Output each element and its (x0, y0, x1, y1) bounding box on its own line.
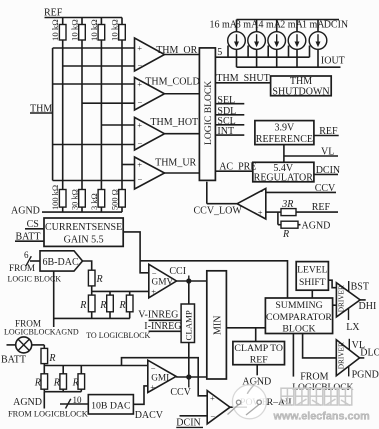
svg-text:VL: VL (321, 146, 334, 157)
pin SDL (215, 106, 244, 117)
pin INT (215, 126, 244, 137)
resistor R batt divider #3 (78, 366, 85, 392)
svg-text:GMV: GMV (152, 278, 174, 288)
resistor 3 kΩ divider bottom #3 (90, 190, 105, 213)
wire THM tap to comparator U2 + input (53, 83, 135, 85)
svg-text:R: R (34, 377, 41, 388)
op-amp comparator U1 (THM_OR) (135, 38, 165, 71)
value labels R R R (79, 300, 125, 311)
svg-text:10 kΩ: 10 kΩ (70, 19, 80, 41)
wire I-INREG input to clamp (144, 321, 181, 332)
wire THM tap to comparator U3 - input (53, 144, 135, 146)
wire GMV output CCI (169, 266, 206, 281)
svg-text:−: − (151, 363, 156, 373)
svg-text:+: + (137, 79, 142, 89)
wire MIN output to summing comparator (226, 327, 265, 329)
wire divider1 tap to comparator U1 - input (63, 65, 135, 67)
svg-text:MIN: MIN (212, 316, 223, 335)
resistor R batt divider #1 (41, 366, 48, 392)
op-amp comparator U6 (CCV_LOW) (237, 187, 266, 219)
wire batt tap jog to powerfail comparator + input (122, 358, 208, 396)
svg-text:THM_COLD: THM_COLD (145, 76, 199, 87)
wire 6-bit bus input from logic block (8, 250, 62, 283)
resistor 30 kΩ divider bottom #2 (71, 189, 86, 212)
wire level shift to high-side driver (328, 280, 336, 288)
value labels R R R batt divider (34, 377, 79, 388)
svg-text:10 kΩ: 10 kΩ (110, 19, 120, 41)
wire branch to clamp-to-ref (255, 328, 257, 342)
svg-text:REF: REF (312, 202, 331, 213)
svg-text:R: R (53, 377, 60, 388)
wire clamp to CCV junction (188, 343, 190, 378)
svg-text:LEVEL: LEVEL (297, 264, 328, 275)
svg-text:5: 5 (217, 47, 222, 58)
svg-text:www.elecfans.com: www.elecfans.com (273, 410, 370, 422)
pin DLO output (360, 347, 379, 358)
svg-text:6: 6 (24, 250, 29, 260)
resistor 10k #3 (10 kΩ) (89, 18, 105, 190)
svg-text:BLOCK: BLOCK (282, 323, 315, 334)
svg-text:AGND: AGND (13, 397, 42, 408)
svg-text:REFERENCE: REFERENCE (256, 134, 313, 145)
svg-text:R: R (96, 274, 103, 285)
wire THM_HOT output to logic block (165, 133, 200, 135)
svg-text:−: − (259, 187, 264, 197)
pin CS input (25, 219, 44, 230)
svg-text:FROM LOGICBLOCK: FROM LOGICBLOCK (8, 409, 88, 418)
pin SCL (215, 116, 244, 127)
wire REF output (314, 126, 339, 137)
svg-text:CCV_LOW: CCV_LOW (194, 205, 243, 216)
block SUMMING COMPARATOR BLOCK (265, 298, 332, 334)
op-amp comparator U2 (THM_COLD) (135, 78, 165, 111)
svg-text:CURRENTSENSE: CURRENTSENSE (45, 222, 122, 233)
wire current sense output CSI (123, 232, 149, 273)
pin DHI output (359, 300, 377, 312)
svg-text:R: R (282, 229, 289, 240)
svg-text:10 kΩ: 10 kΩ (89, 19, 99, 41)
current source 16 mA (210, 19, 246, 67)
svg-text:SHIFT: SHIFT (299, 277, 326, 288)
svg-text:16 mA: 16 mA (210, 19, 238, 30)
svg-text:LOGICBLOCKAGND: LOGICBLOCKAGND (4, 328, 79, 337)
wire IOUT output bus (237, 55, 345, 67)
svg-text:CLAMP TO: CLAMP TO (234, 343, 283, 354)
svg-text:+: + (137, 120, 142, 130)
wire CCV net to comparator - input (266, 183, 336, 194)
resistor R from BATT (41, 345, 56, 366)
block MIN (207, 271, 227, 379)
resistor R dac output (83, 261, 103, 291)
svg-text:DCIN: DCIN (316, 165, 340, 176)
decorative watermark (not labelled further) (228, 381, 370, 423)
svg-text:COMPARATOR: COMPARATOR (266, 312, 332, 323)
op-amp comparator U4 (THM_UR) (135, 157, 165, 189)
wire THM tap to comparator U1 + input (53, 47, 135, 49)
wire summing to logic block (292, 334, 353, 393)
svg-text:FROM: FROM (300, 371, 328, 382)
svg-text:SHUTDOWN: SHUTDOWN (272, 86, 329, 97)
svg-text:CCV: CCV (170, 387, 191, 398)
op-amp comparator U11 (power fail) (207, 391, 230, 424)
dac U10 (10B DAC) (88, 395, 133, 414)
wire DCIN input to regulator (314, 165, 340, 176)
svg-text:AGND: AGND (11, 206, 40, 217)
svg-text:DRIVER: DRIVER (337, 285, 346, 312)
wire THM vertical bus (52, 48, 54, 181)
wire reference to regulator link (283, 145, 285, 163)
svg-text:10 kΩ: 10 kΩ (50, 19, 60, 41)
pin DCIN comparator - input (176, 416, 207, 429)
resistor 10k #2 (10 kΩ) (70, 18, 86, 190)
svg-text:REF: REF (250, 354, 269, 365)
op-amp GMI (148, 360, 176, 392)
svg-text:DACV: DACV (135, 410, 164, 421)
resistor R dac divider #2 (107, 291, 114, 318)
svg-text:−: − (138, 139, 143, 149)
svg-text:LX: LX (346, 322, 360, 333)
wire 10-bit bus input (60, 395, 88, 408)
svg-text:I-INREG: I-INREG (144, 321, 181, 332)
wire CSI branch to summing comparator (140, 261, 287, 298)
svg-text:−: − (138, 175, 143, 185)
wire GMI output CCV to MIN (176, 376, 207, 378)
svg-text:LOGIC BLOCK: LOGIC BLOCK (203, 81, 214, 145)
svg-text:CLAMP: CLAMP (183, 310, 193, 340)
wire divider2 tap to comparator U2 - input (82, 102, 135, 104)
ground AGND of CCV divider (298, 221, 330, 232)
svg-text:500 Ω: 500 Ω (111, 189, 120, 210)
block CLAMP TO REF (233, 342, 285, 366)
wire V-INREG input to clamp (138, 310, 181, 321)
svg-text:AGND: AGND (302, 221, 331, 232)
svg-text:FROM: FROM (9, 263, 35, 273)
op-amp comparator U3 (THM_HOT) (135, 117, 165, 150)
wire THM tap to comparator U4 - input (53, 180, 135, 182)
resistor R dac divider #1 (88, 291, 95, 318)
wire divider3 tap to comparator U3 + input (101, 124, 134, 126)
block THM SHUTDOWN (271, 76, 332, 97)
resistor 500 Ω divider bottom #4 (111, 189, 126, 212)
svg-text:−: − (152, 268, 157, 278)
svg-text:10B DAC: 10B DAC (91, 400, 130, 411)
current source 1 mA (302, 19, 327, 67)
svg-text:GMI: GMI (151, 373, 169, 383)
svg-text:SUMMING: SUMMING (275, 300, 322, 311)
pin VL of low-side driver (349, 339, 365, 351)
wire summing output to driver (333, 304, 337, 306)
wire AC_PRE input (215, 162, 256, 173)
block CURRENTSENSE GAIN 5.5 (44, 218, 123, 246)
svg-text:REGULATOR: REGULATOR (254, 173, 314, 184)
svg-text:+: + (258, 207, 263, 217)
terminal BATT (circle-X) (1, 337, 44, 366)
wire THM_COLD output to logic block (165, 93, 200, 95)
svg-text:GAIN 5.5: GAIN 5.5 (64, 235, 104, 246)
node CCI junction (186, 278, 191, 283)
svg-text:BATT: BATT (1, 355, 26, 366)
svg-text:30 kΩ: 30 kΩ (71, 189, 80, 210)
svg-text:3 kΩ: 3 kΩ (90, 193, 99, 210)
wire divider4 tap to comparator U4 + input (122, 164, 135, 166)
wire dac divider rail to GMV + input (92, 290, 149, 292)
wire POWER FAIL output (230, 397, 268, 408)
pin PGND (349, 366, 379, 381)
svg-text:DHI: DHI (359, 301, 377, 312)
svg-text:3.9V: 3.9V (275, 123, 296, 134)
resistor 10k #4 (10 kΩ) (110, 18, 126, 190)
svg-text:−: − (138, 97, 143, 107)
svg-text:R: R (72, 377, 79, 388)
ground AGND batt divider (13, 392, 81, 409)
current source 2 mA (280, 19, 306, 67)
wire DACV output to GMI + input (133, 386, 163, 421)
svg-text:8 mA: 8 mA (236, 19, 259, 30)
pin BATT input (15, 232, 44, 243)
ground AGND below clamp-to-ref (242, 365, 271, 388)
driver U9 (DRIVER low-side) (336, 340, 359, 376)
resistor 3R (281, 199, 296, 215)
svg-text:PGND: PGND (352, 370, 379, 381)
pin BST (349, 281, 369, 293)
svg-text:BST: BST (351, 282, 369, 293)
driver U8 (DRIVER high-side) (336, 283, 360, 317)
wire 3R to REF (296, 202, 338, 213)
wire comparator + input from divider (266, 211, 281, 213)
svg-text:3R: 3R (281, 199, 293, 210)
svg-text:THM_HOT: THM_HOT (150, 117, 198, 128)
wire level shift to summing comparator (311, 290, 313, 298)
block LEVEL SHIFT (296, 262, 328, 291)
svg-text:V-INREG: V-INREG (138, 310, 178, 321)
wire dac divider ground line (54, 271, 130, 327)
current source 8 mA (236, 19, 266, 67)
wire THM_OR output to logic block (165, 54, 200, 56)
wire VL output (284, 146, 338, 157)
pin SEL (215, 95, 244, 106)
svg-text:R: R (48, 353, 55, 364)
svg-text:IOUT: IOUT (321, 55, 345, 66)
current source 4 mA (259, 19, 286, 67)
wire THM_UR output to logic block (165, 172, 200, 174)
resistor R batt divider #2 (60, 366, 67, 392)
wire DCIN top rail (237, 19, 340, 21)
svg-text:100 kΩ: 100 kΩ (51, 185, 60, 210)
resistor R of CCV divider (281, 221, 298, 240)
svg-text:REF: REF (319, 126, 338, 137)
block 5.4V REGULATOR (253, 162, 314, 183)
wire BATT divider rail to GMI - input (44, 365, 148, 367)
wire REF rail (45, 17, 123, 19)
resistor 100 kΩ divider bottom #1 (51, 185, 66, 212)
svg-text:DLO: DLO (360, 347, 379, 358)
svg-text:+: + (137, 43, 142, 53)
wire summing to low-side driver (303, 334, 337, 358)
node CCV junction (170, 374, 191, 398)
svg-text:6B-DAC: 6B-DAC (43, 257, 79, 268)
logic block U5 (LOGIC BLOCK) (199, 48, 215, 181)
svg-text:+: + (151, 286, 156, 296)
svg-text:CCV: CCV (315, 183, 336, 194)
ground AGND rail under divider (11, 206, 122, 217)
svg-text:CCI: CCI (169, 266, 186, 277)
svg-text:10: 10 (73, 395, 83, 405)
svg-text:THM_UR: THM_UR (155, 157, 196, 168)
svg-text:−: − (210, 411, 215, 421)
pin LX (346, 308, 360, 333)
node FROM LOGICBLOCKAGND label (4, 318, 79, 336)
svg-text:DRIVER: DRIVER (337, 342, 346, 369)
wire CCV_LOW output to logic block (194, 182, 243, 217)
svg-text:R: R (79, 300, 86, 311)
resistor R dac divider #3 (126, 291, 133, 318)
op-amp GMV (149, 264, 177, 298)
wire divider junction (277, 212, 279, 225)
wire CCI to clamp (188, 281, 190, 304)
svg-text:+: + (137, 159, 142, 169)
svg-text:2 mA: 2 mA (280, 19, 303, 30)
wire 5-bit control bus from logic block (215, 47, 309, 58)
block 3.9V REFERENCE (255, 121, 314, 145)
block CLAMP (181, 304, 194, 343)
svg-text:THM_OR: THM_OR (156, 45, 197, 56)
svg-text:DCIN: DCIN (324, 19, 348, 30)
dac U7 (6B-DAC) (40, 251, 83, 271)
svg-text:R: R (119, 300, 126, 311)
svg-text:R: R (99, 300, 106, 311)
svg-text:−: − (138, 60, 143, 70)
resistor 10k #1 (10 kΩ) (50, 18, 66, 190)
svg-text:1 mA: 1 mA (302, 19, 325, 30)
wire THM_SHUT signal (215, 73, 270, 84)
node THM / thermistor input label (30, 104, 53, 115)
svg-text:TO LOGICBLOCK: TO LOGICBLOCK (86, 331, 150, 340)
svg-text:4 mA: 4 mA (259, 19, 282, 30)
svg-text:+: + (210, 393, 215, 403)
